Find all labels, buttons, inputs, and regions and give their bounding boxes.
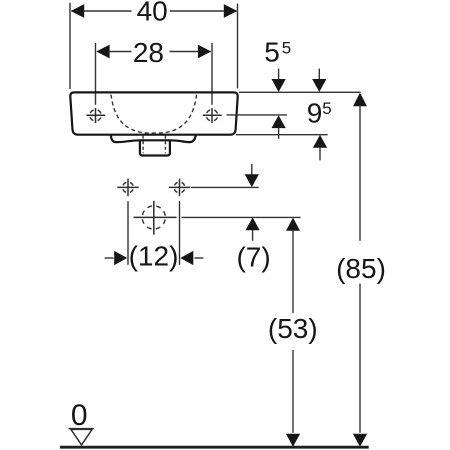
apron lip outline	[111, 135, 196, 142]
svg-text:9: 9	[307, 98, 323, 129]
dimension 85 lower arrow	[353, 434, 367, 447]
fixing hole left circle (dashed)	[123, 182, 134, 193]
datum zero label	[71, 399, 88, 432]
dimension 7 label	[236, 241, 270, 272]
dimension 85 label	[336, 253, 386, 284]
svg-text:5: 5	[264, 37, 280, 68]
dimension 28 extension line left	[95, 43, 97, 105]
dimension 53 line upper	[292, 230, 294, 313]
fixing hole right circle (dashed)	[174, 182, 185, 193]
svg-text:40: 40	[137, 0, 168, 27]
dimension 40 line	[72, 10, 237, 12]
datum symbol line	[69, 428, 94, 430]
dimension 5.5 upper arrow	[272, 69, 286, 92]
drain hidden lines (dashed)	[143, 136, 165, 154]
floor line	[60, 446, 369, 449]
dimension 53 line lower	[292, 350, 294, 433]
dimension 7 lower arrow	[246, 217, 260, 240]
dimension 7 upper arrow	[245, 164, 259, 187]
dimension 9.5 label	[307, 98, 332, 129]
leader line rim level	[239, 91, 361, 93]
fixing hole left crosshair	[117, 179, 138, 197]
dimension 40 extension line left	[69, 3, 71, 89]
svg-text:(53): (53)	[268, 313, 318, 344]
dimension 53 label	[268, 313, 318, 344]
basin outline	[70, 92, 237, 134]
svg-text:(12): (12)	[129, 240, 179, 271]
dimension 85 line upper	[359, 105, 361, 241]
tap hole left circle (dashed)	[90, 110, 101, 121]
svg-text:5: 5	[282, 39, 291, 58]
tap hole left crosshair	[86, 108, 105, 123]
siphon circle (dashed)	[142, 206, 165, 229]
svg-text:(85): (85)	[336, 253, 386, 284]
tap hole right circle (dashed)	[206, 110, 217, 121]
dimension 40 arrow left	[71, 4, 84, 18]
drain box outline	[140, 140, 170, 155]
dimension 85 line lower	[359, 284, 361, 433]
svg-text:(7): (7)	[236, 241, 270, 272]
dimension 40 arrow right	[224, 4, 237, 18]
dimension 5.5 lower arrow	[272, 115, 286, 139]
datum triangle	[71, 429, 92, 445]
leader line siphon level	[182, 216, 301, 218]
dimension 28 arrow left	[96, 45, 109, 59]
fixing hole right crosshair	[169, 179, 190, 197]
svg-text:0: 0	[71, 399, 88, 432]
dimension 12 label	[129, 240, 179, 271]
leader line fixing hole level	[191, 186, 259, 188]
dimension 28 label	[133, 37, 164, 68]
dimension 5.5 label	[264, 37, 291, 68]
leader line basin bottom level	[236, 134, 328, 136]
dimension 12 extension line right	[179, 201, 181, 265]
dimension 53 lower arrow	[286, 434, 300, 447]
leader line tap hole level	[227, 114, 288, 116]
dimension 28 arrow right	[198, 45, 211, 59]
dimension 28 line	[97, 51, 211, 53]
dimension 9.5 lower arrow	[313, 135, 327, 161]
dimension 12 arrow right	[180, 251, 203, 265]
dimension 12 extension line left	[127, 201, 129, 265]
svg-text:5: 5	[322, 99, 331, 118]
tap hole right crosshair	[203, 108, 222, 123]
dimension 28 extension line right	[211, 43, 213, 105]
dimension 12 arrow left	[105, 251, 128, 265]
dimension 40 label	[137, 0, 168, 27]
siphon crosshair	[134, 201, 177, 235]
dimension 85 upper arrow	[353, 93, 367, 107]
dimension 9.5 upper arrow	[312, 69, 326, 92]
basin bowl hidden edge (dashed)	[111, 95, 197, 134]
dimension 40 extension line right	[237, 4, 239, 89]
svg-text:28: 28	[133, 37, 164, 68]
dimension 53 upper arrow	[286, 218, 300, 231]
